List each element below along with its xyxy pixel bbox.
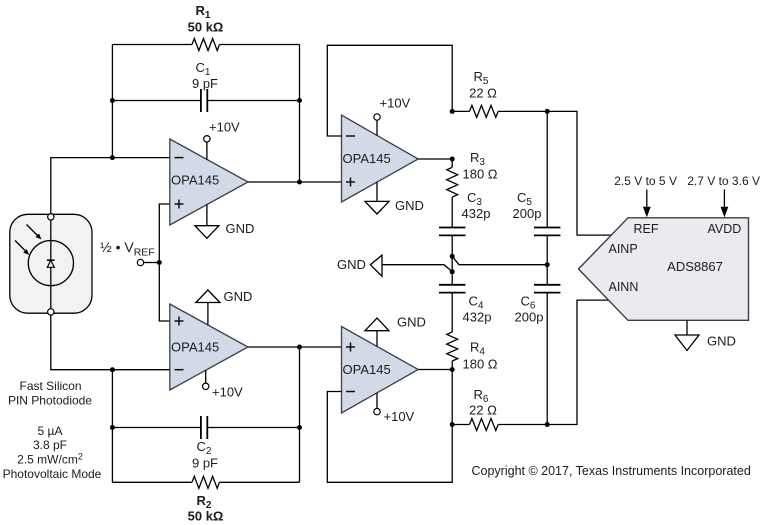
svg-text:C2: C2 <box>197 439 212 457</box>
svg-text:432p: 432p <box>462 206 491 221</box>
wire R3 to C3 <box>451 197 453 227</box>
ground U4 <box>365 315 426 347</box>
photodiode caption <box>8 379 92 408</box>
svg-text:+10V: +10V <box>384 409 415 424</box>
junction <box>110 155 115 160</box>
svg-text:Fast Silicon: Fast Silicon <box>19 379 81 393</box>
resistor R1 <box>188 3 224 51</box>
svg-text:3.8 pF: 3.8 pF <box>33 438 67 452</box>
junction <box>450 269 455 274</box>
photodiode operating-point caption <box>3 424 102 481</box>
svg-text:2.5 V to 5 V: 2.5 V to 5 V <box>614 174 677 188</box>
ground mid <box>337 255 547 276</box>
svg-text:GND: GND <box>226 221 255 236</box>
svg-text:REF: REF <box>634 222 659 236</box>
resistor R2 <box>188 476 224 523</box>
svg-text:22 Ω: 22 Ω <box>469 86 497 101</box>
power AVDD supply arrow <box>687 174 760 217</box>
resistor R4 <box>447 332 498 372</box>
wire C1 row <box>112 100 299 102</box>
junction <box>450 422 455 427</box>
wire U4 feedback loop <box>327 392 452 483</box>
svg-text:GND: GND <box>397 315 426 330</box>
junction <box>297 180 302 185</box>
wire R1 row <box>112 44 299 46</box>
svg-text:9 pF: 9 pF <box>192 76 218 91</box>
wire VREF to non-inverting inputs <box>159 204 170 321</box>
svg-text:OPA145: OPA145 <box>171 340 219 355</box>
ADC U5 ADS8867 <box>579 218 749 320</box>
photodiode D1 <box>10 214 92 315</box>
wire C5 column top <box>546 111 548 227</box>
svg-text:+10V: +10V <box>380 96 411 111</box>
svg-text:432p: 432p <box>463 310 492 325</box>
svg-text:PIN Photodiode: PIN Photodiode <box>8 394 92 408</box>
wire R6 row <box>452 300 609 424</box>
ground U3 <box>196 289 252 325</box>
junction <box>110 425 115 430</box>
capacitor C6 <box>515 285 561 325</box>
junction <box>450 254 455 259</box>
svg-text:+10V: +10V <box>212 385 243 400</box>
junction <box>110 367 115 372</box>
capacitor C5 <box>513 190 561 235</box>
wire first-stage output vertical (top) <box>299 45 301 183</box>
svg-text:180 Ω: 180 Ω <box>462 357 497 372</box>
svg-text:200p: 200p <box>513 206 542 221</box>
power REF supply arrow <box>614 174 677 217</box>
junction <box>545 109 550 114</box>
svg-text:GND: GND <box>337 257 366 272</box>
svg-text:180 Ω: 180 Ω <box>462 167 497 182</box>
wire bottom loop left vertical <box>111 370 113 483</box>
wire top loop left vertical <box>111 45 113 158</box>
svg-text:OPA145: OPA145 <box>343 362 391 377</box>
wire U2 output to R3 <box>451 159 453 167</box>
resistor R3 <box>447 150 498 197</box>
resistor R6 <box>469 387 498 431</box>
power +10V U2 <box>374 96 411 136</box>
wire R4 to U4 output <box>451 361 453 425</box>
wire photodiode bottom to U3 inverting input <box>51 312 170 370</box>
wire C3 to GND node <box>451 235 453 284</box>
wire C4 to R4 <box>451 293 453 332</box>
svg-text:9 pF: 9 pF <box>192 456 218 471</box>
capacitor C1 <box>192 60 218 112</box>
wire R2 row <box>112 481 299 483</box>
power +10V U1 <box>204 120 240 160</box>
ground U2 <box>365 182 424 214</box>
capacitor C3 <box>439 190 490 235</box>
svg-text:ADS8867: ADS8867 <box>667 259 723 274</box>
junction <box>110 98 115 103</box>
wire C6 column bottom <box>546 293 548 425</box>
junction <box>297 425 302 430</box>
svg-text:R4: R4 <box>470 340 485 358</box>
svg-text:50 kΩ: 50 kΩ <box>188 509 224 524</box>
svg-text:OPA145: OPA145 <box>171 173 219 188</box>
wire C2 row <box>112 427 299 429</box>
svg-text:Copyright © 2017, Texas Instru: Copyright © 2017, Texas Instruments Inco… <box>472 464 751 478</box>
wire U2 feedback loop <box>327 45 452 136</box>
svg-text:OPA145: OPA145 <box>343 151 391 166</box>
svg-text:GND: GND <box>224 289 253 304</box>
svg-text:AINN: AINN <box>609 280 639 294</box>
wire U3 output to U4 non-inverting input <box>248 346 342 348</box>
svg-text:AVDD: AVDD <box>708 222 742 236</box>
op-amp U1 <box>170 139 248 225</box>
capacitor C2 <box>192 416 218 471</box>
junction <box>157 260 162 265</box>
junction <box>297 345 302 350</box>
svg-text:R1: R1 <box>196 3 211 21</box>
power +10V U4 <box>374 393 415 424</box>
op-amp U3 <box>170 304 248 390</box>
svg-text:AINP: AINP <box>609 242 638 256</box>
junction <box>450 367 455 372</box>
op-amp U2 <box>342 115 419 202</box>
svg-text:GND: GND <box>395 198 424 213</box>
svg-text:2.5 mW/cm2: 2.5 mW/cm2 <box>17 452 83 467</box>
svg-text:½ • VREF: ½ • VREF <box>100 239 155 259</box>
svg-text:2.7 V to 3.6 V: 2.7 V to 3.6 V <box>687 174 760 188</box>
wire C5 to C6 <box>546 235 548 284</box>
svg-text:R3: R3 <box>470 150 485 168</box>
svg-text:50 kΩ: 50 kΩ <box>188 20 224 35</box>
op-amp U4 <box>342 327 419 414</box>
node 1/2 VREF <box>100 239 159 266</box>
wire R5 row <box>452 111 611 235</box>
svg-text:GND: GND <box>707 334 736 349</box>
svg-text:22 Ω: 22 Ω <box>469 403 497 418</box>
ground U1 <box>195 204 254 238</box>
wire U1 output to U2 non-inverting input <box>248 181 342 183</box>
power +10V U3 <box>203 370 244 399</box>
junction <box>450 157 455 162</box>
svg-text:Photovoltaic Mode: Photovoltaic Mode <box>3 467 102 481</box>
junction <box>545 262 550 267</box>
svg-text:R5: R5 <box>474 69 489 87</box>
wire U4 output <box>418 369 452 371</box>
svg-text:+10V: +10V <box>209 120 240 135</box>
svg-text:5 µA: 5 µA <box>38 424 63 438</box>
junction <box>545 422 550 427</box>
junction <box>297 98 302 103</box>
wire photodiode top to U1 inverting input <box>51 158 170 217</box>
resistor R5 <box>469 69 498 117</box>
capacitor C4 <box>439 285 491 325</box>
junction <box>450 109 455 114</box>
svg-text:200p: 200p <box>515 310 544 325</box>
wire first-stage output vertical (bottom) <box>299 347 301 482</box>
ground ADC <box>675 320 736 350</box>
wire U2 output <box>418 158 452 160</box>
